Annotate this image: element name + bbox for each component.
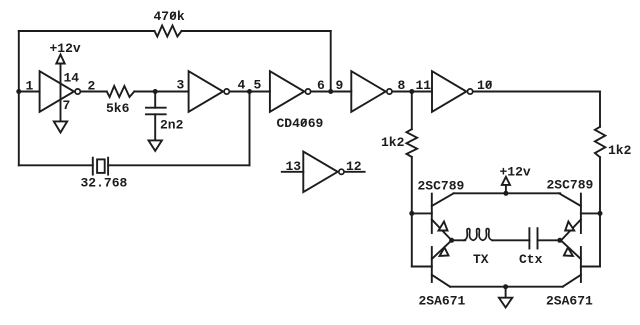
svg-text:+12v: +12v (50, 41, 81, 56)
wire: inductor to Ctx (492, 239, 529, 241)
crystal X1 32.768 (92, 158, 94, 175)
wire: bottom feedback right of crystal (108, 164, 249, 166)
svg-text:Ctx: Ctx (519, 252, 543, 267)
svg-text:TX: TX (473, 252, 489, 267)
node: junction +12v collector rail (503, 191, 508, 196)
node: junction node 5 (247, 89, 252, 94)
slashed zero of pin 10 (486, 82, 491, 88)
transistor Q3 2SA671 (431, 247, 433, 282)
wire: node8 drop to R3 (411, 92, 413, 130)
wire: U1E output pin10 to right rail (474, 92, 601, 127)
svg-text:+12v: +12v (500, 165, 531, 180)
svg-text:5: 5 (254, 78, 262, 93)
svg-text:13: 13 (286, 159, 302, 174)
svg-text:2SC789: 2SC789 (418, 178, 465, 193)
svg-text:32.768: 32.768 (81, 176, 128, 191)
wire: bottom feedback left of crystal (19, 164, 93, 166)
svg-text:CD4069: CD4069 (277, 116, 324, 131)
svg-text:1k2: 1k2 (608, 143, 632, 158)
power +12v arrow at U1A (56, 55, 64, 64)
wire: right base rail to Q4 base (581, 266, 600, 268)
svg-text:2SC789: 2SC789 (547, 178, 594, 193)
transistor Q1 2SC789 (431, 194, 433, 233)
svg-text:1: 1 (26, 79, 34, 94)
svg-text:8: 8 (398, 78, 406, 93)
node: junction left emitter (449, 238, 454, 243)
wire: collector bottom rail (450, 286, 563, 288)
op-amp U1B inverter (189, 71, 223, 112)
svg-text:12: 12 (346, 159, 362, 174)
svg-text:2: 2 (88, 79, 96, 94)
wire: U1C output pin6 to U1D input pin9 (311, 91, 351, 93)
wire: left base rail to Q1 base (412, 212, 432, 214)
svg-text:1k2: 1k2 (381, 135, 405, 150)
svg-text:14: 14 (64, 71, 80, 86)
wire: left base rail to Q3 base (412, 266, 432, 268)
svg-text:9: 9 (336, 78, 344, 93)
node: junction node 9 (328, 89, 333, 94)
slashed zero of 470k (171, 13, 176, 19)
node: junction Q1 base (409, 211, 414, 216)
wire: U1A power rail vertical pin14/pin7 (60, 64, 62, 122)
transistor Q2 2SC789 (580, 194, 582, 233)
ground below C1 (149, 140, 162, 151)
wire: input to U1A pin 1 (19, 91, 40, 93)
wire: node 9 vertical from top rail (330, 31, 332, 92)
capacitor C1 2n2 (154, 92, 156, 108)
svg-text:2n2: 2n2 (160, 118, 184, 133)
inductor TX (464, 229, 493, 241)
svg-text:10: 10 (477, 78, 493, 93)
transistor Q4 2SA671 (580, 247, 582, 282)
node: junction Q2 base (598, 211, 603, 216)
wire: emitter node left to inductor (452, 239, 466, 241)
svg-text:7: 7 (63, 98, 71, 113)
svg-text:4: 4 (238, 78, 246, 93)
svg-text:2SA671: 2SA671 (546, 294, 593, 309)
op-amp U1A inverter (40, 71, 74, 112)
capacitor C2 Ctx (528, 228, 530, 248)
svg-text:470k: 470k (154, 9, 185, 24)
wire: top feedback rail left segment (19, 30, 155, 32)
node: junction right emitter (557, 238, 562, 243)
svg-text:11: 11 (416, 78, 432, 93)
wire: Ctx to right emitter node (538, 239, 560, 241)
node: junction C1/R2 (153, 89, 158, 94)
op-amp U1D inverter (351, 71, 385, 112)
resistor R1 470k (155, 26, 182, 37)
node: junction ground rail (503, 284, 508, 289)
wire: U1B output pin4 to U1C input pin5 (230, 91, 270, 93)
power +12v arrow output stage (505, 185, 507, 193)
ground output stage (505, 287, 507, 298)
wire: collector top rail (454, 192, 561, 194)
svg-text:6: 6 (317, 78, 325, 93)
wire: U1D output pin8 to U1E input pin11 (393, 91, 432, 93)
wire: right base rail to Q2 base (581, 212, 600, 214)
node: junction node 8 (409, 89, 414, 94)
svg-text:5k6: 5k6 (106, 101, 130, 116)
wire: node 5 vertical drop (249, 92, 251, 166)
svg-text:2SA671: 2SA671 (419, 294, 466, 309)
wire: R4 to right base rail (599, 157, 601, 266)
op-amp U1E inverter (432, 71, 466, 112)
wire: left feedback rail vertical (18, 31, 20, 165)
ground below U1A (54, 121, 67, 132)
wire: U1A output pin 2 (81, 91, 107, 93)
node: junction U1A input (16, 89, 21, 94)
op-amp U1C inverter (270, 71, 304, 112)
wire: top feedback rail right segment (182, 30, 331, 32)
resistor R2 5k6 (107, 86, 135, 97)
op-amp U1F inverter unused (282, 171, 304, 173)
slashed zero of CD4069 (302, 120, 307, 126)
svg-text:3: 3 (177, 78, 185, 93)
resistor R3 1k2 left (407, 129, 418, 157)
wire: R3 to left base rail (411, 157, 413, 267)
wire: R2 to U1B input pin 3 (134, 91, 188, 93)
resistor R4 1k2 right (595, 127, 605, 157)
